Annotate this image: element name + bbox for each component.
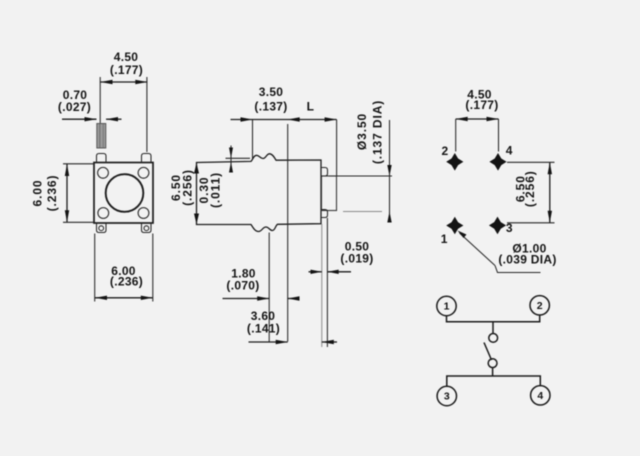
svg-text:4: 4 [506, 144, 513, 158]
schematic terminal 2 [530, 296, 549, 315]
svg-text:2: 2 [442, 144, 449, 158]
svg-text:(.256): (.256) [523, 170, 537, 207]
svg-text:L: L [307, 100, 315, 114]
svg-text:1: 1 [444, 301, 450, 313]
schematic contact b [488, 359, 497, 368]
top view corner rivet circles [98, 167, 149, 218]
svg-text:3.50: 3.50 [259, 85, 284, 99]
svg-text:(.070): (.070) [226, 279, 259, 293]
dimension 3.50 and L [231, 85, 337, 176]
svg-text:6.00: 6.00 [31, 180, 45, 207]
svg-text:(.256): (.256) [181, 169, 195, 206]
svg-text:(.236): (.236) [110, 274, 143, 288]
svg-text:(.236): (.236) [45, 175, 59, 212]
top view body [94, 163, 153, 224]
top view lower lead tabs [97, 223, 152, 233]
dimension 6.00 left (rotated) [31, 164, 94, 223]
schematic top rail wire [447, 315, 540, 322]
schematic contact a [489, 334, 498, 343]
schematic switch lever [484, 343, 492, 361]
schematic wire to movable contact [492, 322, 494, 334]
svg-text:(.137): (.137) [254, 100, 287, 114]
pad 3 [489, 217, 506, 235]
dimension Ø3.50 DIA (rotated) [329, 100, 392, 223]
svg-text:(.027): (.027) [58, 100, 91, 114]
schematic terminal 1 [437, 296, 456, 315]
pad 1 [446, 217, 463, 235]
side view stem (button) [322, 176, 337, 211]
svg-text:(.011): (.011) [209, 172, 223, 208]
extension line through body [287, 124, 289, 342]
side view body [197, 154, 322, 232]
svg-text:4.50: 4.50 [114, 50, 139, 64]
svg-text:(.137 DIA): (.137 DIA) [371, 100, 385, 164]
pad 2 [446, 153, 463, 171]
svg-text:2: 2 [537, 300, 543, 312]
top view upper lead tabs [97, 154, 152, 163]
pad labels [441, 144, 513, 247]
svg-text:Ø3.50: Ø3.50 [355, 113, 369, 150]
pad layout dimension 4.50 [456, 88, 499, 152]
dimension 0.70 [58, 88, 122, 121]
svg-text:(.019): (.019) [340, 252, 373, 266]
top-left grey lead bar [97, 124, 106, 149]
dimension 6.00 bottom [95, 234, 153, 302]
pad layout dimension 6.50 (rotated) [507, 162, 555, 223]
svg-text:(.177): (.177) [110, 63, 143, 77]
dimension 0.30 (rotated) [197, 146, 250, 209]
dimension 0.50 [309, 218, 374, 347]
svg-text:3: 3 [444, 391, 450, 403]
svg-text:4: 4 [537, 390, 543, 402]
svg-text:(.141): (.141) [247, 322, 280, 336]
dimension 3.60 [247, 309, 337, 344]
side view collar tabs [321, 168, 328, 218]
schematic terminal 3 [437, 386, 456, 405]
top view center button circle [106, 174, 144, 212]
dimension 6.50 on side view left edge (rotated) [169, 163, 199, 224]
dimension 4.50 top-left [100, 50, 147, 152]
dimension Ø1.00 DIA with leader [458, 231, 557, 273]
schematic bottom rail wire [447, 376, 541, 386]
svg-text:(.177): (.177) [465, 98, 498, 112]
schematic terminal 4 [531, 386, 550, 405]
svg-text:1: 1 [441, 232, 448, 246]
svg-text:(.039 DIA): (.039 DIA) [498, 253, 556, 267]
schematic wire from contact b [492, 368, 494, 376]
pad 4 [489, 153, 506, 171]
dimension 1.80 [223, 233, 300, 342]
